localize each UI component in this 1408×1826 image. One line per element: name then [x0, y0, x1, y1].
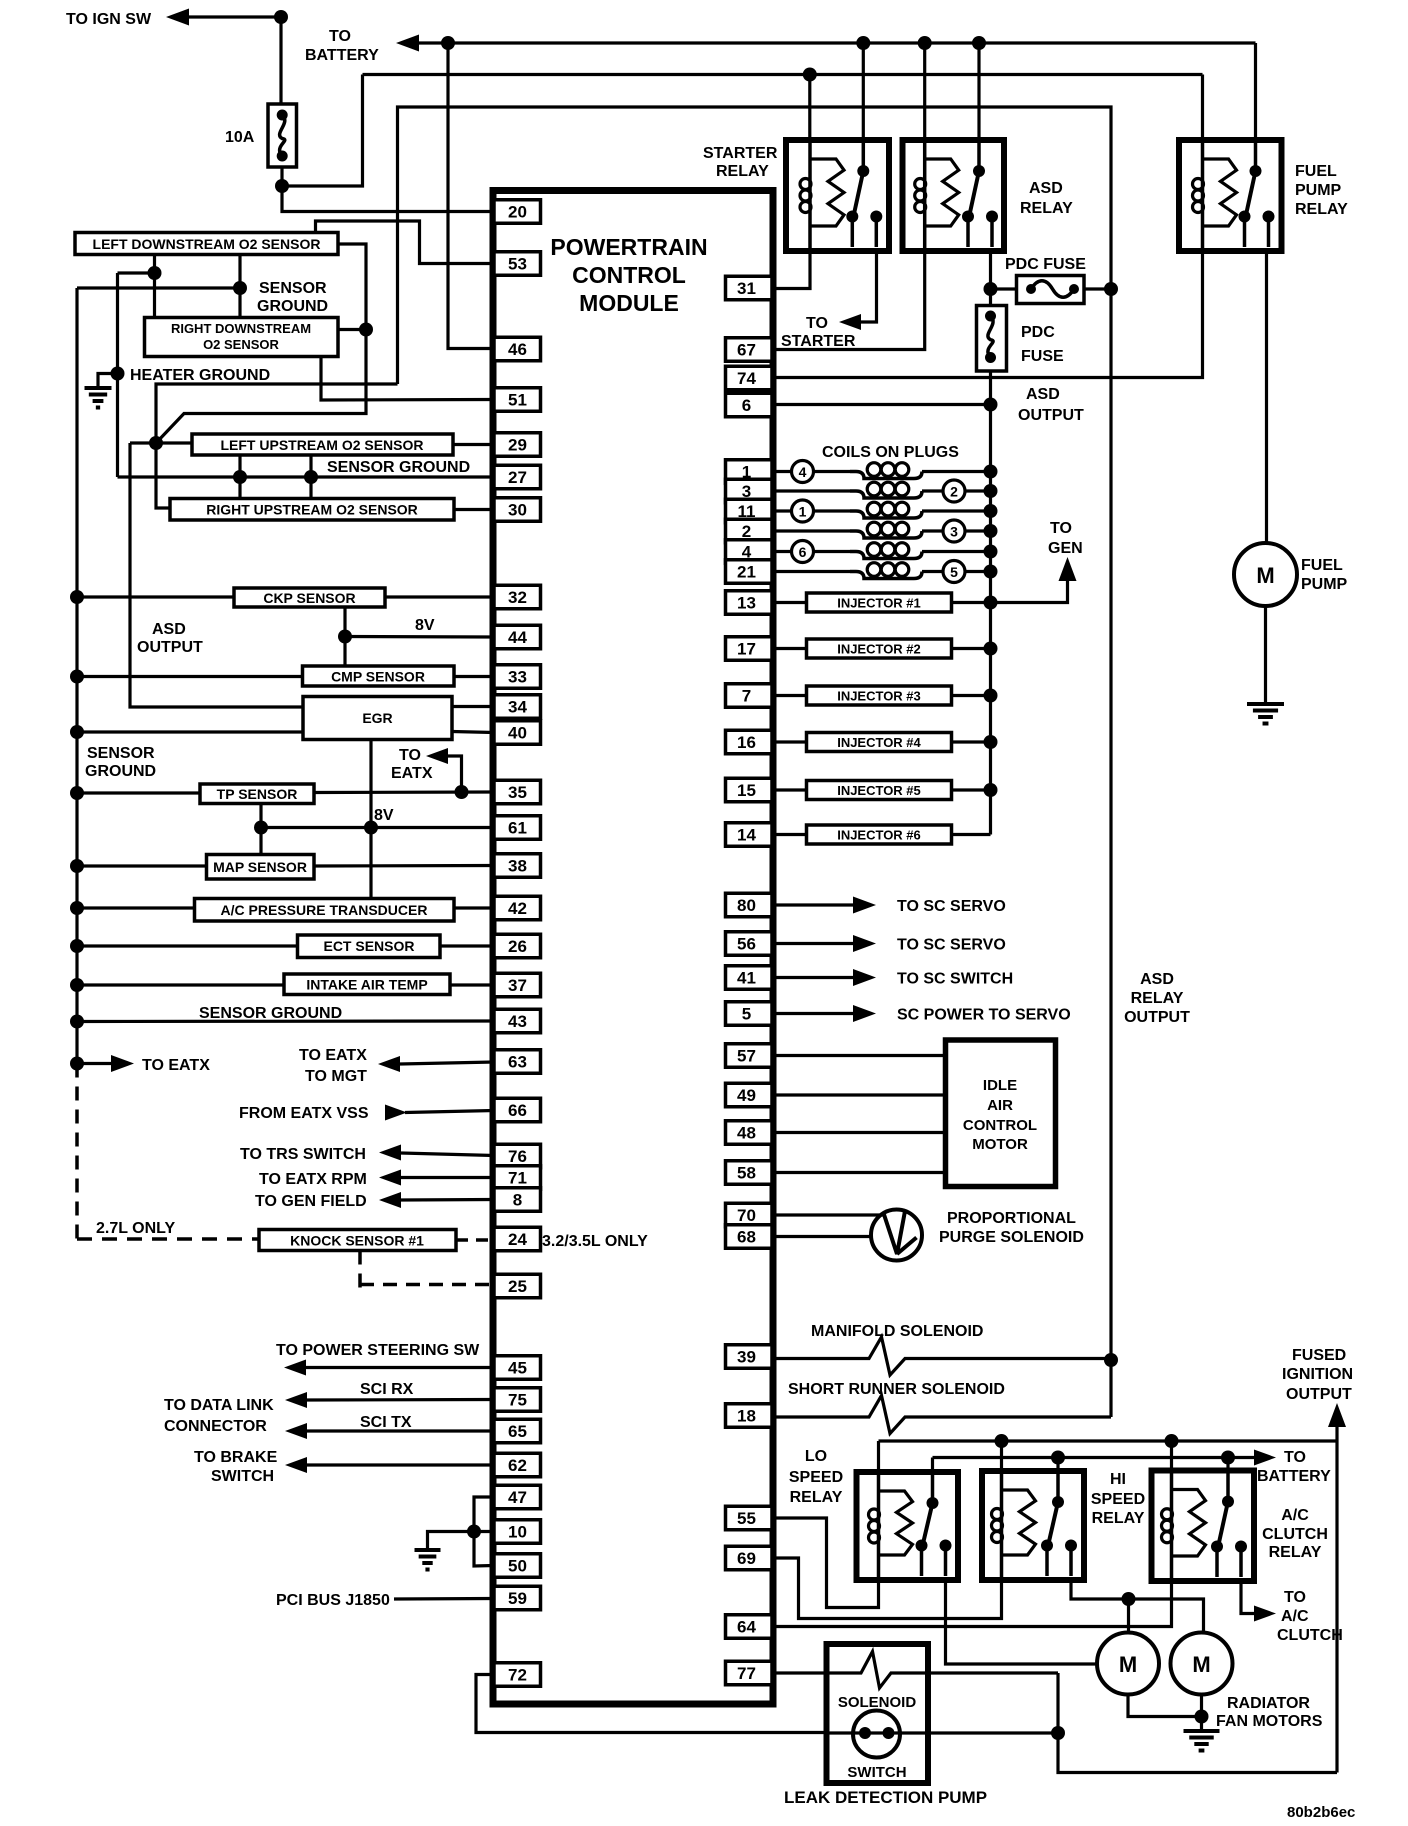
svg-text:TO: TO [806, 315, 828, 332]
pin 20 [494, 200, 541, 224]
svg-text:RELAY: RELAY [1020, 200, 1073, 217]
relay starter [786, 140, 889, 251]
pin 7 [726, 684, 773, 708]
wire ac coil to pin 64 [772, 1581, 1172, 1627]
pin 11 [726, 499, 773, 523]
junction hi relay coil feed [995, 1434, 1009, 1448]
ground symbol heater [85, 386, 112, 390]
pin 76 [494, 1144, 541, 1168]
pin 56 [726, 932, 773, 956]
pin 49 [726, 1083, 773, 1107]
wire fuse to battery-net riser [282, 75, 363, 187]
wire battery to pin 46 [448, 43, 494, 349]
wire pin sc stub [772, 976, 853, 979]
svg-text:OUTPUT: OUTPUT [1286, 1386, 1352, 1403]
junction coil row 5 [984, 565, 998, 579]
wire fp switch feed [1254, 43, 1257, 140]
junction ac relay coil feed [1165, 1434, 1179, 1448]
pin 80 [726, 893, 773, 917]
pin 26 [494, 934, 541, 958]
pin 17 [726, 637, 773, 661]
EGR box [303, 697, 452, 740]
wire starter switch feed [862, 43, 865, 140]
wire ckp to pin 32 [385, 595, 494, 598]
pin 21 [726, 560, 773, 584]
svg-text:LO: LO [805, 1448, 827, 1465]
junction left downstream sensor ground 1 [148, 266, 162, 280]
junction 8V tp [254, 821, 268, 835]
arrow to gen [1059, 557, 1077, 581]
wire ckp 8V branch [343, 607, 346, 637]
pin 62 [494, 1453, 541, 1477]
junction pin 10 ground [467, 1525, 481, 1539]
wire transducer to pin 42 [454, 906, 494, 909]
svg-text:51: 51 [508, 391, 527, 410]
arrow to eatx rpm [379, 1170, 401, 1186]
arrow to battery fans [1254, 1450, 1276, 1466]
wire bus to transducer [77, 906, 195, 909]
svg-text:MOTOR: MOTOR [972, 1136, 1028, 1153]
svg-text:38: 38 [508, 857, 527, 876]
svg-text:46: 46 [508, 340, 527, 359]
svg-text:56: 56 [737, 935, 756, 954]
wire fuse bottom [280, 167, 283, 186]
wire pin to iac [772, 1171, 946, 1174]
pin 74 [726, 366, 773, 390]
fuse 10A [268, 104, 297, 167]
svg-text:SCI TX: SCI TX [360, 1414, 412, 1431]
svg-text:15: 15 [737, 781, 756, 800]
wire pin to iac [772, 1093, 946, 1096]
svg-text:4: 4 [799, 464, 807, 480]
wire asd output to short runner [1109, 1360, 1112, 1417]
pin 42 [494, 896, 541, 920]
svg-text:TO: TO [1284, 1449, 1306, 1466]
pin 3 [726, 479, 773, 503]
junction pin35 eatx [455, 785, 469, 799]
svg-text:FUEL: FUEL [1301, 557, 1343, 574]
pin 72 [494, 1663, 541, 1687]
svg-text:76: 76 [508, 1147, 527, 1166]
svg-text:SPEED: SPEED [789, 1469, 843, 1486]
svg-text:FUSE: FUSE [1021, 348, 1064, 365]
arrow to ac clutch [1254, 1606, 1276, 1622]
ignition coil plug 5 [772, 570, 850, 573]
wire to pcm ground symbol [428, 1532, 475, 1549]
svg-text:TO POWER STEERING SW: TO POWER STEERING SW [276, 1342, 480, 1359]
junction heater ground [111, 367, 125, 381]
svg-text:OUTPUT: OUTPUT [1018, 407, 1084, 424]
svg-text:GROUND: GROUND [257, 298, 328, 315]
svg-text:LEAK DETECTION PUMP: LEAK DETECTION PUMP [784, 1788, 987, 1807]
arrow to EATX egr [426, 748, 448, 764]
pin 68 [726, 1225, 773, 1249]
arrow to starter [839, 314, 861, 330]
junction coil row 2 [984, 484, 998, 498]
svg-text:10A: 10A [225, 129, 255, 146]
wire bus to tp [77, 791, 200, 794]
junction bus ect [70, 939, 84, 953]
PCM powertrain control module box [493, 191, 773, 1705]
svg-text:INJECTOR #3: INJECTOR #3 [837, 689, 921, 704]
pin 55 [726, 1506, 773, 1530]
pin 15 [726, 778, 773, 802]
svg-text:IDLE: IDLE [983, 1077, 1017, 1094]
svg-text:O2 SENSOR: O2 SENSOR [203, 337, 279, 352]
svg-text:TO: TO [329, 28, 351, 45]
wire net row3 to ASD output column [398, 107, 1112, 384]
svg-text:3.2/3.5L ONLY: 3.2/3.5L ONLY [542, 1233, 648, 1250]
svg-text:FUSED: FUSED [1292, 1347, 1346, 1364]
svg-text:TO SC SWITCH: TO SC SWITCH [897, 971, 1013, 988]
svg-text:30: 30 [508, 501, 527, 520]
svg-text:TO BRAKE: TO BRAKE [194, 1449, 278, 1466]
arrow to battery [396, 35, 419, 52]
svg-text:A/C PRESSURE TRANSDUCER: A/C PRESSURE TRANSDUCER [221, 902, 428, 918]
wire pin to iac [772, 1131, 946, 1134]
junction injector #2 bus [984, 642, 998, 656]
wire tp to map [259, 828, 262, 855]
junction injector #4 bus [984, 735, 998, 749]
A/C PRESSURE TRANSDUCER box [195, 899, 455, 922]
arrow to sc switch [853, 969, 876, 986]
svg-text:6: 6 [799, 544, 807, 560]
svg-text:68: 68 [737, 1228, 756, 1247]
wire right upstream to pin 30 [454, 508, 494, 511]
junction asd output manifold [1104, 1353, 1118, 1367]
svg-text:70: 70 [737, 1206, 756, 1225]
wire leak to fused ignition loop [1058, 1733, 1337, 1773]
svg-text:POWERTRAIN: POWERTRAIN [550, 234, 707, 260]
LEFT DOWNSTREAM O2 SENSOR box [75, 233, 338, 255]
arrow sci tx [285, 1423, 307, 1439]
wire pin 65 stub [307, 1429, 494, 1432]
svg-text:FAN MOTORS: FAN MOTORS [1216, 1713, 1323, 1730]
svg-text:PCI BUS J1850: PCI BUS J1850 [276, 1592, 390, 1609]
ECT SENSOR box [298, 935, 441, 958]
junction injector #5 bus [984, 783, 998, 797]
svg-text:48: 48 [737, 1124, 756, 1143]
wire right downstream bottom to pin 51 [321, 357, 494, 401]
junction ignition/fuse [274, 10, 288, 24]
pin 2 [726, 519, 773, 543]
svg-text:10: 10 [508, 1523, 527, 1542]
wire bus to ect [77, 944, 298, 947]
junction bus sensor ground 43 [70, 1015, 84, 1029]
fuse PDC horizontal [1017, 276, 1085, 304]
svg-text:29: 29 [508, 436, 527, 455]
wire right downstream right [338, 328, 366, 331]
svg-text:ASD: ASD [1029, 180, 1063, 197]
svg-text:EATX: EATX [391, 765, 433, 782]
arrow sci rx [285, 1392, 307, 1408]
wire pin sc stub [772, 1012, 853, 1015]
svg-text:32: 32 [508, 588, 527, 607]
motor radiator fan 1 [1097, 1633, 1159, 1695]
svg-text:35: 35 [508, 783, 527, 802]
arrow sc power to servo [853, 1005, 876, 1022]
svg-text:COILS ON PLUGS: COILS ON PLUGS [822, 444, 959, 461]
pin 51 [494, 388, 541, 412]
wire upstream link 2 [309, 455, 312, 499]
pin 5 [726, 1002, 773, 1026]
svg-text:14: 14 [737, 826, 756, 845]
svg-text:BATTERY: BATTERY [1257, 1468, 1331, 1485]
wire hi contact to fan motors [1071, 1580, 1204, 1633]
wire bus to iat [77, 983, 284, 986]
wire asd relay output column [1109, 289, 1112, 1360]
svg-text:39: 39 [737, 1348, 756, 1367]
svg-text:TO EATX: TO EATX [299, 1047, 367, 1064]
pin 71 [494, 1166, 541, 1190]
pin 16 [726, 730, 773, 754]
pin 65 [494, 1419, 541, 1443]
pin 13 [726, 591, 773, 615]
arrow to sc servo [853, 935, 876, 952]
ground symbol fuel pump [1247, 702, 1284, 706]
svg-text:5: 5 [742, 1005, 751, 1024]
svg-text:TO GEN FIELD: TO GEN FIELD [255, 1193, 367, 1210]
wire fp contact to fuel pump [1265, 251, 1268, 543]
wire pin to injector #6 [772, 833, 807, 836]
pin 4 [726, 540, 773, 564]
svg-text:77: 77 [737, 1664, 756, 1683]
wire fused ignition rail [879, 1439, 1338, 1442]
pin 45 [494, 1356, 541, 1380]
junction bus tp [70, 786, 84, 800]
wire injector #1 to asd bus [952, 601, 991, 604]
wire to left upstream box [130, 441, 192, 444]
junction left downstream sensor ground 2 [233, 281, 247, 295]
wire fused ignition riser [1335, 1426, 1338, 1441]
svg-text:SOLENOID: SOLENOID [838, 1694, 917, 1711]
wire ASD output branch down to EGR [130, 443, 303, 707]
svg-text:TO MGT: TO MGT [305, 1068, 367, 1085]
junction upstream sensor ground 1 [233, 470, 247, 484]
wire asd switch feed [977, 43, 980, 140]
injector #1 box [807, 593, 952, 612]
svg-text:EGR: EGR [362, 710, 392, 726]
svg-text:HI: HI [1110, 1471, 1126, 1488]
svg-text:49: 49 [737, 1086, 756, 1105]
svg-text:TO SC SERVO: TO SC SERVO [897, 898, 1006, 915]
wire bus to ckp [77, 595, 234, 598]
svg-text:57: 57 [737, 1047, 756, 1066]
svg-text:RIGHT DOWNSTREAM: RIGHT DOWNSTREAM [171, 321, 311, 336]
svg-text:ASD: ASD [152, 621, 186, 638]
svg-text:16: 16 [737, 733, 756, 752]
svg-text:MODULE: MODULE [579, 290, 679, 316]
svg-text:OUTPUT: OUTPUT [1124, 1009, 1190, 1026]
pin 14 [726, 823, 773, 847]
wire net battery top row [419, 41, 1256, 44]
junction fan ground [1195, 1710, 1209, 1724]
wire map to pin 38 [314, 864, 494, 868]
wire 77 branch down [1056, 1673, 1059, 1733]
svg-text:CLUTCH: CLUTCH [1262, 1526, 1328, 1543]
svg-text:65: 65 [508, 1422, 527, 1441]
junction hi relay switch feed [1051, 1451, 1065, 1465]
short runner solenoid wire with break [772, 1396, 1111, 1434]
svg-text:SENSOR GROUND: SENSOR GROUND [327, 459, 470, 476]
wire pin 10 stub [474, 1530, 494, 1533]
pin 64 [726, 1615, 773, 1639]
wire pin to injector #2 [772, 647, 807, 650]
junction coil row 3 [984, 524, 998, 538]
junction 8V ckp/cmp [338, 630, 352, 644]
wire ac coil feed [1170, 1441, 1173, 1471]
wire egr to pin 40 [452, 732, 494, 733]
injector #5 box [807, 781, 952, 800]
RIGHT UPSTREAM O2 SENSOR box [170, 499, 454, 521]
wire 8V to transducer [369, 828, 372, 899]
svg-text:INJECTOR #4: INJECTOR #4 [837, 735, 921, 750]
wire tp 8V branch [259, 804, 262, 828]
wire asd output to pin 6 [776, 403, 991, 406]
INTAKE AIR TEMP box [284, 974, 450, 995]
svg-text:66: 66 [508, 1101, 527, 1120]
wire dashed knock left [77, 1237, 259, 1241]
wire ac switch feed [1226, 1458, 1229, 1471]
arrow to gen field [379, 1192, 401, 1208]
svg-text:45: 45 [508, 1359, 527, 1378]
svg-text:67: 67 [737, 341, 756, 360]
pin 38 [494, 854, 541, 878]
wire net B+ row2 [363, 73, 1203, 76]
wire injector #6 to asd bus [952, 833, 991, 836]
svg-text:SHORT RUNNER SOLENOID: SHORT RUNNER SOLENOID [788, 1381, 1005, 1398]
wire to gen branch [991, 580, 1068, 603]
pin 39 [726, 1345, 773, 1369]
svg-text:INJECTOR #6: INJECTOR #6 [837, 828, 921, 843]
pin 37 [494, 973, 541, 997]
CKP SENSOR box [234, 588, 385, 607]
svg-text:CONNECTOR: CONNECTOR [164, 1418, 267, 1435]
fuse PDC vertical [989, 289, 992, 306]
wire asd coil to pin 67 [776, 251, 925, 350]
wire heater to right upstream [156, 443, 170, 508]
wire hi coil feed [1000, 1441, 1003, 1471]
svg-text:SCI RX: SCI RX [360, 1381, 414, 1398]
arrow fused ignition output [1328, 1403, 1346, 1427]
svg-text:37: 37 [508, 976, 527, 995]
svg-text:PUMP: PUMP [1301, 576, 1348, 593]
svg-text:RELAY: RELAY [1131, 990, 1184, 1007]
wire injector #4 to asd bus [952, 740, 991, 743]
svg-text:34: 34 [508, 698, 527, 717]
svg-text:M: M [1119, 1652, 1137, 1677]
wire pin 72 loop under pcm [476, 1675, 827, 1733]
leak pump solenoid wire with break [772, 1652, 1058, 1689]
relay fuel pump [1179, 140, 1282, 251]
wire leak switch row [827, 1731, 1059, 1734]
svg-text:INJECTOR #1: INJECTOR #1 [837, 596, 921, 611]
pin 27 [494, 465, 541, 489]
svg-text:A/C: A/C [1281, 1507, 1309, 1524]
svg-text:RIGHT UPSTREAM O2 SENSOR: RIGHT UPSTREAM O2 SENSOR [206, 502, 418, 518]
svg-text:INJECTOR #5: INJECTOR #5 [837, 783, 921, 798]
svg-text:1: 1 [799, 504, 807, 520]
arrow to brake switch [285, 1457, 307, 1473]
junction bus transducer [70, 901, 84, 915]
svg-text:OUTPUT: OUTPUT [137, 639, 203, 656]
svg-text:74: 74 [737, 369, 756, 388]
junction bus cmp [70, 670, 84, 684]
wire starter contact to starter [861, 251, 877, 322]
wire pin 8 stub [401, 1198, 494, 1202]
wire heater column [116, 273, 119, 477]
CMP SENSOR box [303, 666, 455, 686]
arrow from eatx vss [385, 1105, 407, 1121]
TP SENSOR box [200, 784, 314, 804]
wire asd contact to pdc fuse [989, 251, 992, 289]
wire fused ignition right side [1335, 1441, 1338, 1773]
svg-text:STARTER: STARTER [703, 145, 778, 162]
wire heater net upper [156, 384, 398, 443]
wire left downstream to pin 53 [316, 221, 495, 264]
pin 47 [494, 1485, 541, 1509]
svg-text:6: 6 [742, 396, 751, 415]
wire cmp to pin 33 [454, 675, 494, 678]
junction injector #3 bus [984, 689, 998, 703]
junction upstream sensor ground 2 [304, 470, 318, 484]
wire pin 45 stub [306, 1366, 494, 1369]
junction bus to eatx [70, 1057, 84, 1071]
svg-text:8V: 8V [415, 617, 435, 634]
wire ignition feed [189, 15, 281, 18]
junction right downstream heater [359, 323, 373, 337]
ignition coil plug 4 [772, 470, 792, 473]
wire pin 76 stub [401, 1153, 494, 1156]
injector #4 box [807, 733, 952, 752]
svg-text:80: 80 [737, 896, 756, 915]
pin 43 [494, 1009, 541, 1033]
wire dashed knock to pin 25 [360, 1251, 494, 1289]
wire pin to injector #4 [772, 740, 807, 743]
svg-text:18: 18 [737, 1407, 756, 1426]
svg-text:TO DATA LINK: TO DATA LINK [164, 1397, 274, 1414]
wire lo coil feed [877, 1441, 880, 1472]
junction coil row 6 [984, 545, 998, 559]
ground symbol fan motors [1184, 1729, 1220, 1733]
junction bus iat [70, 978, 84, 992]
wire to fan motor 1 top [1127, 1599, 1130, 1633]
svg-text:PDC FUSE: PDC FUSE [1005, 256, 1086, 273]
wire tp to pin 35 [314, 790, 494, 794]
wire pin sc stub [772, 903, 853, 906]
svg-text:ASD: ASD [1140, 971, 1174, 988]
wire dot to heater column [118, 271, 155, 274]
junction fan motor 1 feed [1122, 1592, 1136, 1606]
wire 8V to pin 44 [345, 635, 494, 639]
svg-text:SC POWER TO SERVO: SC POWER TO SERVO [897, 1007, 1071, 1024]
svg-text:CMP SENSOR: CMP SENSOR [331, 669, 425, 685]
wire pdc fuse to asd output node [989, 371, 992, 405]
wire ac contact to clutch [1241, 1581, 1254, 1614]
svg-text:61: 61 [508, 819, 527, 838]
junction coil row 4 [984, 465, 998, 479]
wire ect to pin 26 [440, 944, 494, 947]
wire asd output bus [989, 405, 992, 835]
svg-text:3: 3 [950, 524, 958, 540]
svg-text:M: M [1192, 1652, 1210, 1677]
svg-text:24: 24 [508, 1230, 527, 1249]
pin 63 [494, 1050, 541, 1074]
pin 34 [494, 695, 541, 719]
svg-text:TO: TO [399, 747, 421, 764]
wire eatx branch to pin 35 node [448, 756, 462, 792]
svg-text:A/C: A/C [1281, 1608, 1309, 1625]
